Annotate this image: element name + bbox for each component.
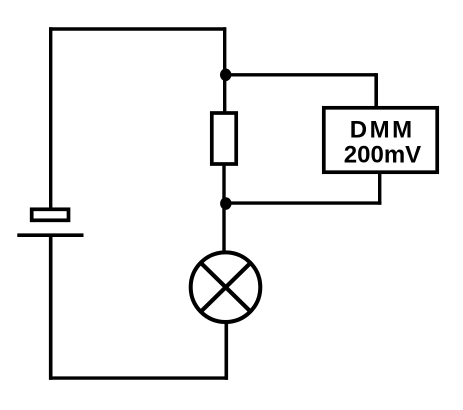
wire main vertical upper (top wire to resistor top, through node A) — [223, 27, 226, 112]
wire bottom horizontal — [49, 376, 228, 379]
wire left vertical lower (battery plate to bottom wire) — [49, 236, 53, 380]
svg-text:DMM: DMM — [350, 117, 415, 144]
wire top horizontal (battery top to main vertical) — [49, 27, 226, 30]
wire down into DMM top (vertical) — [374, 73, 378, 107]
node A (junction dot above resistor) — [220, 69, 231, 82]
wire resistor bottom to lamp top (through node B) — [222, 164, 225, 252]
lamp DS1 (circle with X) — [191, 252, 261, 322]
wire DMM bottom to node B (vertical then horizontal) — [230, 173, 381, 205]
label DMM — [350, 117, 415, 144]
label 200mV — [344, 142, 421, 169]
wire lamp bottom to bottom wire — [225, 321, 229, 380]
node B (junction dot below resistor) — [220, 197, 231, 210]
battery B1 (cell: top plate rectangle, bottom plate line) — [17, 209, 83, 235]
svg-text:200mV: 200mV — [344, 142, 421, 169]
wire node A to DMM top (horizontal) — [226, 73, 376, 76]
resistor R1 — [212, 113, 236, 164]
wire left vertical upper (top wire down to battery plate) — [49, 27, 52, 208]
DMM box U1 — [324, 108, 437, 172]
